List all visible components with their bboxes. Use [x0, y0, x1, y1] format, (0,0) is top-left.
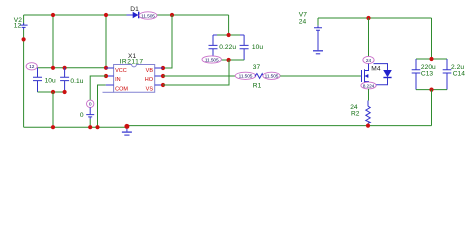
voltage source V2 [14, 17, 28, 30]
svg-text:11.505: 11.505 [239, 74, 253, 80]
capacitor C14 2.2u [443, 59, 466, 90]
node dot R2 bottom [366, 124, 370, 128]
svg-text:V7: V7 [299, 12, 307, 19]
wire 0V to rail [89, 119, 91, 127]
junction bootstrap caps bottom VS [227, 58, 231, 62]
pin HO [145, 76, 163, 83]
junction C13 C14 bottom [429, 88, 433, 92]
junction VCC net x53 [51, 66, 55, 70]
wire bootstrap caps top [213, 34, 244, 36]
bias oval 8.224 source [361, 82, 376, 89]
svg-text:0: 0 [80, 112, 84, 119]
node dot ground [124, 124, 129, 129]
node dot M4 drain rail [366, 16, 370, 20]
wire rail to VCC drop x106 [105, 15, 107, 68]
wire caps bottom to rail [52, 92, 54, 127]
svg-text:24: 24 [299, 19, 307, 26]
junction top rail x106 [104, 13, 108, 17]
wire drain drop [368, 18, 370, 56]
capacitor C 0.1u input [60, 68, 84, 92]
node dot VCC pin [104, 66, 108, 70]
svg-text:0.1u: 0.1u [70, 78, 83, 85]
svg-text:COM: COM [115, 87, 128, 93]
bias oval 0 [87, 100, 94, 108]
transistor M4 [361, 64, 381, 83]
pin COM [106, 85, 129, 93]
svg-text:R2: R2 [351, 111, 360, 118]
svg-text:VS: VS [146, 87, 154, 93]
junction bottom rail COM [95, 125, 99, 129]
node dot IN pin [104, 74, 108, 78]
wire C13 C14 bottom [416, 89, 447, 91]
wire rail to caps drop x53 [52, 15, 54, 68]
svg-text:M4: M4 [371, 65, 381, 72]
wire top rail left [24, 14, 229, 16]
capacitor C 0.22u bootstrap [209, 35, 237, 56]
voltage source 0V sense [80, 108, 94, 120]
svg-text:10u: 10u [252, 44, 263, 51]
svg-text:11.505: 11.505 [265, 74, 279, 80]
wire bootstrap caps bottom [213, 59, 244, 61]
pin VS [146, 85, 163, 93]
svg-text:C14: C14 [453, 71, 466, 78]
bias oval 24 drain [363, 56, 374, 64]
svg-text:VB: VB [146, 68, 154, 74]
svg-text:10u: 10u [45, 77, 56, 84]
capacitor C 10u bootstrap [240, 35, 264, 60]
bias oval 11.505 R1 right [263, 72, 280, 79]
IC X1 IR2117 gate driver body [103, 53, 155, 92]
svg-text:R1: R1 [253, 83, 262, 90]
junction C13 C14 top [429, 57, 433, 61]
svg-text:12: 12 [14, 23, 22, 30]
svg-text:IN: IN [115, 77, 121, 83]
bottom rail left [24, 126, 127, 128]
bias oval 11.505 VS [202, 56, 221, 64]
pin VCC [106, 68, 127, 74]
wire source to R2 [368, 89, 370, 101]
svg-text:C13: C13 [421, 71, 434, 78]
wire V2 drop [23, 15, 25, 25]
svg-text:11.505: 11.505 [205, 57, 219, 63]
wire VB drop [163, 15, 172, 68]
svg-text:24: 24 [366, 58, 372, 64]
wire VCC net horizontal [38, 67, 107, 69]
wire top rail right [318, 17, 432, 19]
svg-text:37: 37 [253, 64, 261, 71]
junction caps bottom C 0.1u [63, 90, 67, 94]
junction VCC net C 0.1u top [63, 66, 67, 70]
pin VB [146, 68, 163, 74]
junction caps bottom x53 [51, 90, 55, 94]
node dot V2 minus [22, 37, 26, 41]
node dot HO pin [161, 74, 165, 78]
node dot VS pin [161, 83, 165, 87]
wire R1 to gate [280, 75, 361, 77]
svg-text:8.224: 8.224 [363, 83, 375, 89]
svg-text:VCC: VCC [115, 68, 127, 74]
bias oval 11.505 at D1 cathode [139, 12, 157, 20]
svg-text:0: 0 [89, 102, 92, 108]
junction bottom rail x53 [51, 125, 55, 129]
junction top rail x53 [51, 13, 55, 17]
resistor R2 [350, 101, 370, 126]
bottom rail right [127, 125, 432, 127]
junction bottom rail x90 [88, 125, 92, 129]
junction bootstrap caps top [227, 33, 231, 37]
body diode of M4 [374, 64, 392, 85]
svg-text:0.22u: 0.22u [219, 44, 236, 51]
wire caps to bottom rail [431, 90, 433, 126]
wire C13 C14 top [416, 58, 447, 60]
bias oval 12 [26, 63, 37, 70]
node dot VB rail [170, 13, 174, 17]
svg-text:IR2117: IR2117 [120, 58, 144, 65]
wire IN net [90, 76, 106, 100]
wire rail corner to bootstrap caps [228, 15, 230, 35]
capacitor C 10u input [33, 68, 56, 92]
node dot VB pin [161, 66, 165, 70]
bias oval 11.505 R1 left [235, 72, 256, 79]
wire VS net [163, 60, 229, 85]
ground V7 [313, 51, 323, 54]
wire rail right corner down [431, 18, 433, 59]
wire HO to R1 [163, 75, 235, 77]
svg-text:D1: D1 [130, 6, 139, 13]
pin IN [106, 76, 121, 83]
ground main [122, 126, 132, 135]
capacitor C13 220u [412, 59, 436, 90]
svg-text:HO: HO [145, 77, 154, 83]
voltage source V7 [299, 12, 322, 51]
svg-text:12: 12 [29, 64, 35, 70]
diode D1 [127, 6, 143, 18]
wire V2 to bottom rail [23, 30, 25, 128]
wire COM net [98, 85, 106, 127]
wire caps bottom [38, 91, 65, 93]
svg-text:11.505: 11.505 [141, 13, 155, 19]
resistor R1 [253, 64, 263, 89]
